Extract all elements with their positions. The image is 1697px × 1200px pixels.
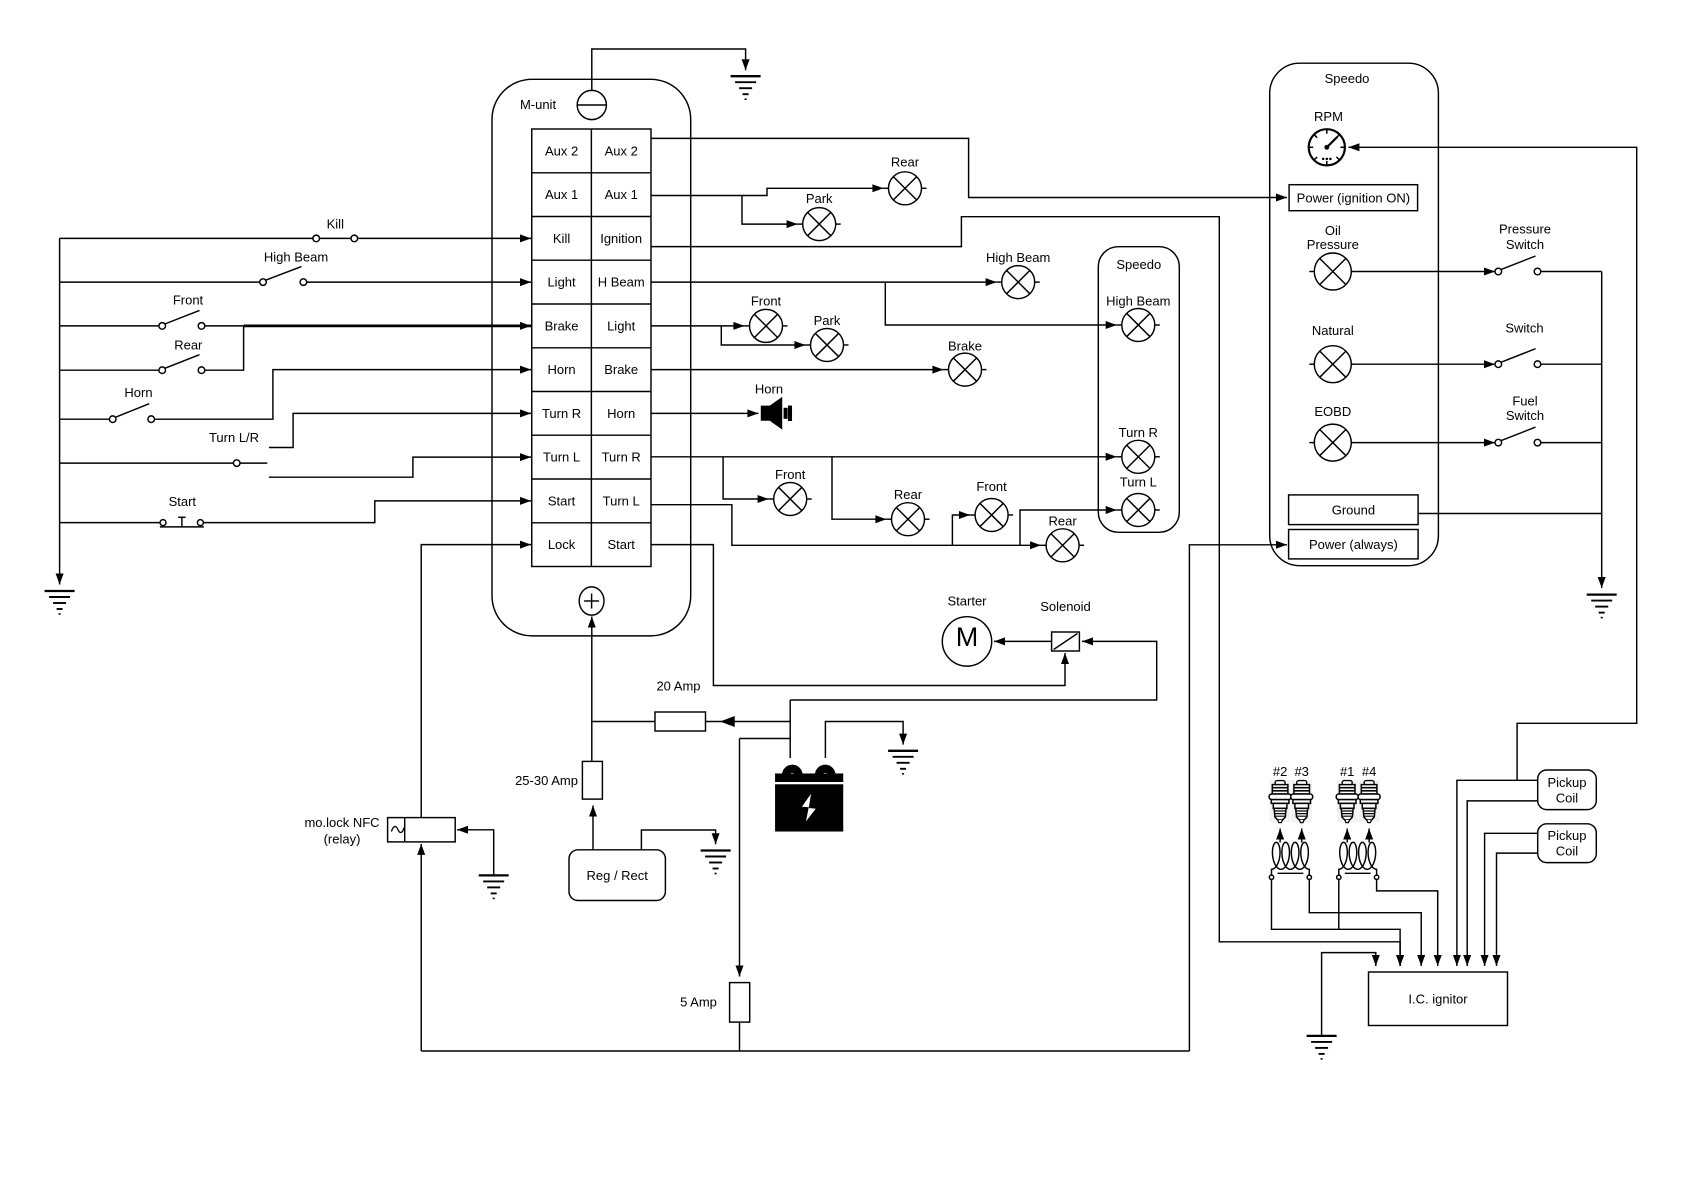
svg-text:Reg / Rect: Reg / Rect (586, 868, 648, 883)
svg-text:Fuel: Fuel (1512, 393, 1537, 408)
lamp Natural (1309, 346, 1356, 383)
box Power (ignition ON) (1289, 185, 1418, 211)
wire turn R throw to Turn R port (269, 413, 531, 447)
lamp Rear tail (884, 172, 927, 205)
switch Horn (109, 404, 154, 423)
switch High Beam (260, 267, 307, 286)
svg-text:Ground: Ground (1332, 502, 1375, 517)
svg-text:#4: #4 (1362, 764, 1376, 779)
speedo unit box (1270, 63, 1439, 566)
svg-text:Front: Front (976, 479, 1007, 494)
wire horn switch to bus (60, 418, 110, 420)
wire high beam switch to bus (60, 281, 260, 283)
svg-text:Natural: Natural (1312, 323, 1354, 338)
wire start to Start port (203, 501, 531, 523)
svg-text:25-30 Amp: 25-30 Amp (515, 773, 578, 788)
wire turn common to bus (60, 462, 234, 464)
spark plug #3 (1291, 780, 1313, 823)
svg-text:Starter: Starter (947, 594, 987, 609)
svg-text:Light: Light (607, 319, 636, 334)
svg-text:Speedo: Speedo (1325, 71, 1370, 86)
svg-text:Aux 2: Aux 2 (545, 144, 578, 159)
pickup coil 2 (1538, 824, 1597, 863)
lamp EOBD (1309, 424, 1356, 461)
switch Rear brake (159, 355, 205, 374)
spark plug #2 (1269, 780, 1291, 823)
wire ignitor ground wire (1322, 953, 1376, 1036)
wire neutral switch to ground bus (1541, 363, 1602, 365)
wire bottom bus (421, 1050, 1189, 1052)
horn speaker (762, 398, 782, 428)
svg-text:#3: #3 (1294, 764, 1308, 779)
switch Kill (closed) (313, 235, 358, 242)
svg-text:#1: #1 (1340, 764, 1354, 779)
wire reg rect to ground (641, 830, 715, 850)
svg-text:Horn: Horn (607, 406, 635, 421)
svg-text:Horn: Horn (547, 362, 575, 377)
ground left bus (45, 591, 75, 614)
wire high beam to Light port (307, 281, 531, 283)
wire coil HV to plug #4 (1368, 829, 1370, 843)
wire battery to solenoid (790, 641, 1156, 700)
wire front brake to junction (205, 325, 244, 327)
starter motor M1 (942, 617, 991, 666)
wire M-unit minus to ground (592, 49, 746, 90)
svg-text:Switch: Switch (1506, 408, 1544, 423)
wire front brake switch to bus (60, 325, 159, 327)
svg-text:H Beam: H Beam (598, 275, 645, 290)
svg-text:#2: #2 (1273, 764, 1287, 779)
svg-text:Front: Front (751, 294, 782, 309)
svg-text:Turn R: Turn R (602, 450, 641, 465)
M-unit enclosure (492, 79, 691, 636)
wire pickup1 a to ignitor (1457, 780, 1538, 966)
wire battery plus to 5A branch (740, 738, 791, 740)
svg-text:Pickup: Pickup (1547, 775, 1586, 790)
lamp Park front (798, 208, 841, 241)
svg-text:Park: Park (814, 313, 841, 328)
svg-text:Pressure: Pressure (1499, 221, 1551, 236)
wire pickup2 a to ignitor (1485, 833, 1538, 966)
svg-text:Solenoid: Solenoid (1040, 599, 1091, 614)
wire kill switch to bus (60, 237, 313, 239)
svg-text:Aux 1: Aux 1 (545, 187, 578, 202)
M-unit connector table (532, 129, 651, 567)
wire natural to neutral switch (1356, 363, 1495, 365)
lamp High Beam (997, 266, 1040, 299)
wire reg rect to fuse F2 (592, 806, 594, 850)
M-unit terminal minus (577, 90, 606, 119)
box Power (always) (1289, 530, 1419, 559)
svg-text:RPM: RPM (1314, 109, 1343, 124)
spark plug #4 (1358, 780, 1380, 823)
wire Horn out to horn (651, 412, 758, 414)
wire 20A fuse line battery to M-unit (592, 721, 790, 723)
wire coil T1 terminal a to ignitor (1272, 880, 1401, 966)
svg-text:Coil: Coil (1556, 844, 1579, 859)
wire branch down to 5A fuse (739, 739, 741, 977)
svg-text:Turn R: Turn R (1119, 425, 1158, 440)
svg-text:Rear: Rear (891, 155, 920, 170)
ground ignitor (1307, 1036, 1337, 1059)
wire pickup2 b to ignitor (1497, 853, 1538, 966)
lamp Rear turn right (887, 503, 930, 536)
svg-text:Coil: Coil (1556, 790, 1579, 805)
svg-text:Switch: Switch (1505, 321, 1543, 336)
left common bus wire (59, 238, 61, 584)
wire battery plus up (789, 700, 791, 758)
svg-text:Aux 1: Aux 1 (605, 187, 638, 202)
wire Turn L branch to speedo Turn L lamp (1020, 510, 1117, 545)
svg-text:Turn L: Turn L (1120, 474, 1157, 489)
wire solenoid to starter (994, 640, 1052, 642)
fuse F1 20 Amp (655, 712, 706, 731)
ground relay (479, 875, 509, 898)
svg-text:High Beam: High Beam (264, 250, 328, 265)
svg-text:Turn L: Turn L (543, 450, 580, 465)
wire coil HV to plug #3 (1301, 829, 1303, 843)
svg-text:mo.lock NFC: mo.lock NFC (304, 815, 379, 830)
svg-text:High Beam: High Beam (986, 250, 1050, 265)
svg-text:Start: Start (607, 537, 635, 552)
wire Turn R branch to Front turn lamp (723, 457, 769, 499)
wire bus up to relay (420, 844, 422, 1051)
ground battery (888, 751, 918, 774)
svg-text:Brake: Brake (948, 338, 982, 353)
RPM gauge (1309, 129, 1345, 165)
wire coil HV to plug #2 (1279, 829, 1281, 843)
lamp Front turn left (970, 499, 1013, 532)
wire eobd to fuel switch (1356, 442, 1495, 444)
arrowhead on 20A fuse wire (722, 717, 734, 726)
fuse F3 5 Amp (730, 983, 750, 1023)
wire horn to Horn port (154, 370, 531, 420)
svg-text:Horn: Horn (124, 385, 152, 400)
svg-text:High Beam: High Beam (1106, 293, 1170, 308)
wire rear brake switch to bus (60, 369, 159, 371)
box Ground (1289, 495, 1419, 525)
svg-text:Turn L: Turn L (603, 494, 640, 509)
switch Neutral (1495, 349, 1541, 368)
svg-text:20 Amp: 20 Amp (656, 679, 700, 694)
wire Light to Front park lamp (651, 325, 744, 327)
svg-text:Rear: Rear (174, 338, 203, 353)
wire H Beam branch to speedo High Beam lamp (885, 282, 1116, 325)
svg-text:5 Amp: 5 Amp (680, 995, 717, 1010)
wire Aux 1 to Rear park lamp (651, 188, 883, 195)
fuse F2 25-30 Amp (582, 761, 602, 799)
wire battery minus to ground (825, 722, 903, 759)
svg-text:I.C. ignitor: I.C. ignitor (1408, 991, 1468, 1006)
lamp speedo Turn L (1117, 494, 1160, 527)
svg-text:Pressure: Pressure (1307, 237, 1359, 252)
ground top (731, 76, 761, 99)
wire 5A fuse to bottom bus (739, 1022, 741, 1051)
pickup coil 1 (1538, 770, 1597, 810)
svg-text:Lock: Lock (548, 537, 576, 552)
svg-text:EOBD: EOBD (1314, 404, 1351, 419)
switch Turn L/R (SPDT) (233, 460, 267, 467)
svg-text:Kill: Kill (553, 231, 570, 246)
spark plug #1 (1336, 780, 1358, 823)
wire brake joint to Brake port (244, 325, 531, 328)
svg-text:Aux 2: Aux 2 (605, 144, 638, 159)
battery B1 (776, 765, 843, 830)
wire Brake to Brake lamp (651, 369, 943, 371)
lamp Oil Pressure (1309, 253, 1356, 290)
wire rear brake to brake junction (205, 326, 244, 370)
wire right ground bus down (1601, 272, 1603, 589)
wire Turn L to Rear turn lamp 2 (651, 505, 1041, 546)
svg-text:Kill: Kill (327, 216, 344, 231)
svg-text:Brake: Brake (545, 319, 579, 334)
wire start button to bus (60, 522, 160, 524)
wire oil pressure to pressure switch (1356, 271, 1495, 273)
switch Front brake (159, 310, 205, 329)
wire Aux 1 branch to Park lamp (742, 196, 798, 225)
wire relay to Lock port (421, 545, 531, 818)
svg-text:Turn R: Turn R (542, 406, 581, 421)
svg-text:Light: Light (547, 275, 576, 290)
wire kill to Kill port (358, 237, 531, 239)
wire ground to relay (457, 830, 494, 876)
wire ground box to ground bus (1418, 513, 1602, 515)
wire pickup1 b to ignitor (1467, 801, 1538, 966)
wire Ignition to IC ignitor (651, 217, 1400, 966)
ground right switches (1587, 595, 1617, 618)
relay mo.lock NFC (388, 818, 456, 842)
lamp Brake (944, 353, 987, 386)
wire Aux 2 to Power ignition ON (651, 138, 1287, 197)
lamp Rear turn left (1041, 529, 1084, 562)
wire pickup net to RPM gauge (1348, 147, 1636, 780)
lamp speedo Turn R (1117, 440, 1160, 473)
svg-text:Front: Front (173, 293, 204, 308)
regulator rectifier (569, 850, 665, 901)
svg-text:Turn L/R: Turn L/R (209, 430, 259, 445)
switch Fuel (1495, 427, 1541, 446)
wire pressure switch to ground bus (1541, 271, 1602, 273)
svg-text:Brake: Brake (604, 362, 638, 377)
wire coil T2 terminal b to ignitor (1377, 880, 1438, 966)
switch Start (push button) (160, 517, 204, 527)
svg-text:Front: Front (775, 467, 806, 482)
lamp Front turn right (769, 483, 812, 516)
svg-text:Horn: Horn (755, 382, 783, 397)
solenoid K1 (1052, 632, 1080, 651)
wire fuel switch to ground bus (1541, 442, 1602, 444)
wire coil T1 terminal b to ignitor (1309, 880, 1421, 966)
wire coil T2 terminal a to coil T1 net (1338, 880, 1340, 930)
svg-text:Pickup: Pickup (1547, 828, 1586, 843)
svg-text:Ignition: Ignition (600, 231, 642, 246)
wire M-unit plus feed (591, 617, 593, 762)
lamp Park 2 (806, 329, 849, 362)
lamp speedo High Beam (1117, 309, 1160, 342)
wire Turn L branch to Front turn lamp 2 (952, 515, 970, 545)
wire Start out to solenoid (651, 545, 1065, 686)
switch Pressure (1495, 256, 1541, 275)
M-unit terminal plus (579, 587, 604, 615)
svg-text:Oil: Oil (1325, 223, 1341, 238)
svg-text:Park: Park (806, 191, 833, 206)
wire Turn R to speedo Turn R lamp (651, 456, 1117, 458)
svg-text:Power (ignition ON): Power (ignition ON) (1297, 190, 1410, 205)
svg-text:Start: Start (169, 494, 197, 509)
svg-text:(relay): (relay) (324, 831, 361, 846)
wire turn L throw to Turn L port (269, 457, 531, 477)
wire bus up to Power always (1189, 545, 1287, 1051)
svg-text:M: M (956, 622, 979, 652)
wire coil HV to plug #1 (1346, 829, 1348, 843)
I.C. ignitor box (1369, 972, 1508, 1026)
ground reg rect (701, 851, 731, 874)
svg-text:Start: Start (548, 494, 576, 509)
svg-text:Rear: Rear (1049, 513, 1078, 528)
svg-text:Power (always): Power (always) (1309, 537, 1398, 552)
svg-text:Switch: Switch (1506, 237, 1544, 252)
svg-text:Rear: Rear (894, 487, 923, 502)
svg-text:Speedo: Speedo (1116, 257, 1161, 272)
ignition coil T2 (cyl 1-4) (1337, 842, 1379, 879)
ignition coil T1 (cyl 2-3) (1269, 842, 1311, 879)
speedo indicator cluster box (1098, 247, 1179, 533)
wire Light branch to Park lamp 2 (721, 326, 805, 345)
svg-text:M-unit: M-unit (520, 97, 557, 112)
lamp Front park (745, 309, 788, 342)
wire H Beam to High Beam lamp (651, 281, 997, 283)
wire Turn R branch to Rear turn lamp (832, 457, 886, 519)
